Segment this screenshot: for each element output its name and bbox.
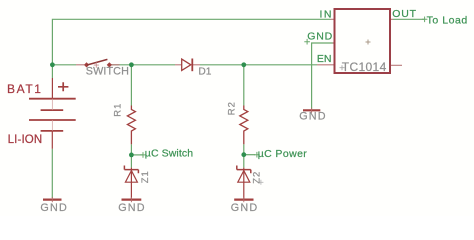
svg-text:GND: GND <box>299 111 327 123</box>
svg-text:Z1: Z1 <box>140 170 151 183</box>
svg-text:OUT: OUT <box>392 8 417 20</box>
svg-text:µC Power: µC Power <box>258 148 308 160</box>
svg-text:EN: EN <box>317 53 332 65</box>
svg-text:IN: IN <box>320 9 334 21</box>
svg-text:R1: R1 <box>112 103 123 117</box>
svg-text:SWITCH: SWITCH <box>86 66 129 78</box>
svg-text:D1: D1 <box>198 66 211 77</box>
svg-text:R2: R2 <box>227 101 238 115</box>
svg-text:LI-ION: LI-ION <box>8 134 43 146</box>
svg-text:BAT1: BAT1 <box>7 82 43 96</box>
svg-text:GND: GND <box>307 31 333 43</box>
svg-text:To Load: To Load <box>427 15 468 27</box>
svg-text:GND: GND <box>118 202 146 214</box>
svg-text:Z2: Z2 <box>251 171 262 184</box>
svg-text:GND: GND <box>231 202 259 214</box>
svg-text:µC Switch: µC Switch <box>145 148 193 160</box>
svg-text:TC1014: TC1014 <box>342 60 387 74</box>
svg-text:GND: GND <box>40 202 68 214</box>
